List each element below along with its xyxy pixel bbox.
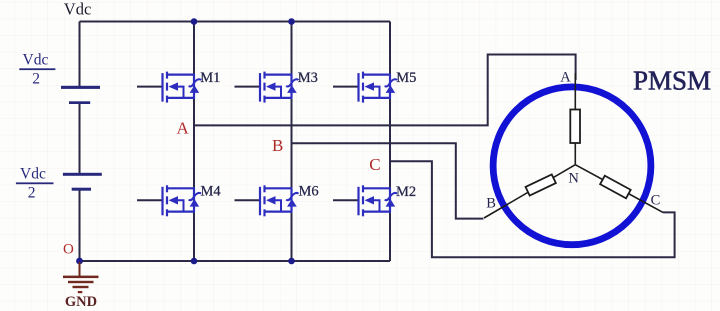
svg-text:2: 2 bbox=[32, 70, 40, 87]
svg-text:M5: M5 bbox=[396, 70, 416, 86]
svg-text:O: O bbox=[63, 242, 74, 258]
svg-text:PMSM: PMSM bbox=[633, 66, 711, 96]
svg-text:M4: M4 bbox=[201, 183, 222, 199]
svg-text:B: B bbox=[486, 195, 496, 211]
svg-text:A: A bbox=[177, 119, 190, 138]
svg-text:M6: M6 bbox=[299, 183, 319, 199]
svg-text:2: 2 bbox=[28, 185, 36, 202]
svg-text:M3: M3 bbox=[298, 70, 318, 86]
svg-text:M1: M1 bbox=[200, 70, 220, 86]
svg-text:Vdc: Vdc bbox=[20, 165, 46, 182]
svg-text:A: A bbox=[560, 69, 571, 85]
svg-text:Vdc: Vdc bbox=[23, 51, 49, 68]
svg-text:M2: M2 bbox=[396, 184, 416, 200]
svg-text:C: C bbox=[369, 155, 380, 174]
svg-text:GND: GND bbox=[65, 294, 97, 310]
svg-text:B: B bbox=[272, 136, 283, 155]
svg-text:Vdc: Vdc bbox=[64, 0, 92, 19]
svg-text:N: N bbox=[568, 171, 579, 187]
svg-text:C: C bbox=[651, 192, 661, 208]
